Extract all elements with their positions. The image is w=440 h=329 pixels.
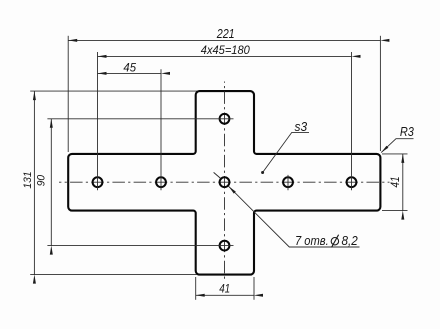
dim 45 line	[98, 72, 162, 74]
svg-text:131: 131	[22, 171, 34, 188]
svg-text:8,2: 8,2	[342, 233, 359, 248]
svg-text:s3: s3	[295, 119, 308, 134]
svg-text:41: 41	[388, 176, 402, 187]
dim 4x45=180 line	[98, 55, 352, 57]
leader hole note overshoot stub	[214, 172, 221, 178]
dim 131 extension bottom	[30, 274, 197, 276]
dim 90 line	[50, 119, 52, 246]
hole 4 (288,182.2)	[283, 177, 293, 187]
diameter symbol	[331, 238, 338, 245]
hole 3 center (224.5,182.2)	[220, 177, 230, 187]
dim 41 right line	[402, 154, 404, 211]
vertical center line (dash-dot)	[224, 82, 226, 280]
leader s3 line	[263, 132, 309, 172]
hole 1 extension (up to dims)	[97, 52, 99, 190]
svg-text:221: 221	[216, 27, 235, 41]
hole 6 top (224.5,118.8)	[220, 114, 230, 124]
svg-text:4x45=180: 4x45=180	[201, 43, 250, 57]
dim 90 extension bottom (through bottom hole)	[47, 245, 233, 247]
horizontal center line (dash-dot)	[59, 181, 390, 183]
dim 90 extension top (through top hole)	[47, 118, 233, 120]
leader hole note line	[229, 186, 360, 247]
dim 221 extension left	[67, 36, 69, 152]
svg-text:R3: R3	[400, 124, 415, 139]
part outline: cross-shaped plate, thick contour, corner radius R3	[68, 91, 380, 275]
leader s3: dot on face	[261, 171, 264, 174]
dim 131 extension top	[30, 90, 197, 92]
dim 41 bottom extension left	[195, 277, 197, 300]
svg-text:45: 45	[123, 61, 136, 75]
leader hole note arrow	[229, 186, 236, 193]
leader R3 line	[381, 139, 413, 153]
dim 41 bottom extension right	[253, 277, 255, 300]
svg-text:41: 41	[219, 283, 230, 295]
leader R3 arrow	[381, 146, 388, 153]
dim 41 right extension top	[382, 153, 408, 155]
svg-text:7 отв.: 7 отв.	[295, 233, 329, 248]
hole 5 (351.5,182.2)	[347, 177, 357, 187]
dim 221 extension right	[379, 36, 381, 151]
hole 4 vertical tick	[287, 175, 289, 190]
hole 1 (97.5,182.2)	[93, 177, 103, 187]
dim 131 line	[33, 91, 35, 275]
hole 7 bottom (224.5,245.6)	[220, 241, 230, 251]
dim 221 line	[68, 39, 380, 41]
hole 2 extension	[160, 69, 162, 190]
svg-text:90: 90	[36, 174, 48, 186]
hole 2 (161,182.2)	[156, 177, 166, 187]
hole 5 extension	[351, 52, 353, 190]
dim 41 right extension bottom	[382, 210, 408, 212]
dim 41 bottom line	[196, 294, 254, 296]
